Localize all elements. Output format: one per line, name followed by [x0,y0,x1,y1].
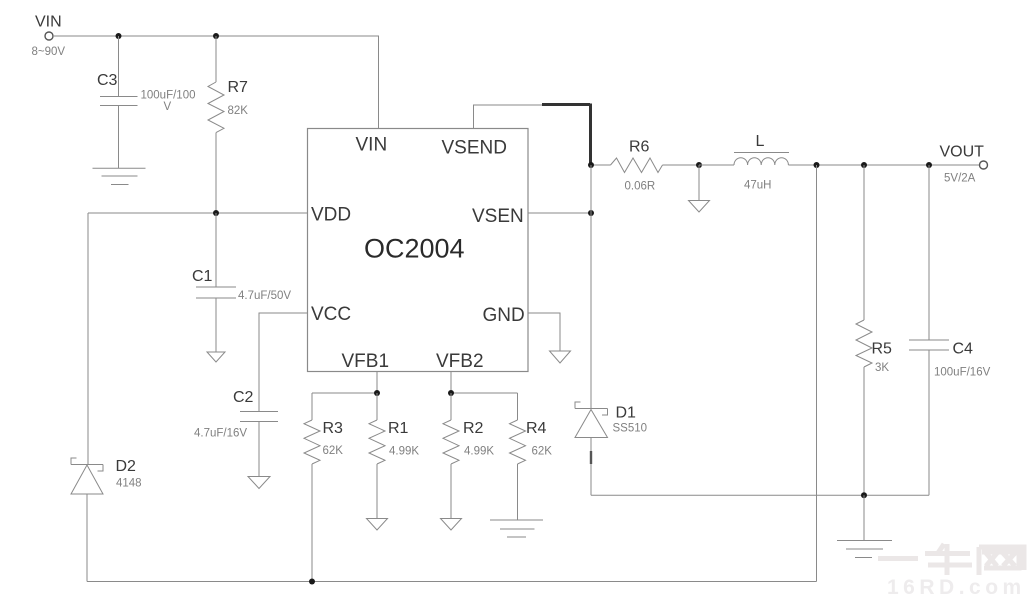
ground earth bottom right [837,541,892,558]
svg-text:R5: R5 [872,341,893,358]
svg-text:C1: C1 [192,268,213,285]
svg-text:82K: 82K [228,105,249,117]
capacitor C1 [192,268,291,302]
svg-text:VSEN: VSEN [472,206,524,227]
resistor R3 [304,393,343,464]
watermark logo [878,544,1024,575]
svg-text:R7: R7 [228,79,249,96]
wire D2 bottom lead [86,494,88,582]
node junction C3/VIN rail [116,33,122,39]
diode D1 [575,402,647,438]
svg-text:R2: R2 [463,420,484,437]
svg-text:62K: 62K [532,446,553,458]
svg-text:4.99K: 4.99K [389,446,419,458]
wire stub to earth ground [863,495,865,540]
ground triangle below C1 [207,352,225,362]
svg-text:R4: R4 [526,420,547,437]
wire D1 bottom lead [590,438,592,496]
IC U1 OC2004 [308,129,529,373]
node junction R7/VIN rail [213,33,219,39]
node junction ground rail [861,492,867,498]
svg-text:100uF/100: 100uF/100 [141,90,196,102]
wire VFB2 pin [451,372,518,394]
resistor R5 [856,165,892,495]
terminal VIN [32,14,66,59]
wire SW vertical to D1 [590,165,592,409]
resistor R4 [510,393,553,464]
svg-text:100uF/16V: 100uF/16V [934,367,991,379]
node junction VDD/C1 [213,210,219,216]
svg-text:4148: 4148 [116,478,142,490]
svg-text:VDD: VDD [311,205,351,226]
ground triangle below R1 [367,519,388,531]
tick mark on D1 lead [590,451,592,464]
wire VSEND thick segment [542,104,591,166]
ground triangle below C2 [248,477,270,489]
capacitor C2 [194,389,278,440]
inductor L [699,133,789,192]
wire right vertical to bottom rail [816,165,818,582]
svg-text:62K: 62K [323,445,344,457]
svg-text:D1: D1 [616,405,637,422]
wire stub to ground after R6 [698,165,700,201]
svg-text:C4: C4 [953,341,974,358]
ground earth below C3 [93,168,146,184]
wire VCC to C2 [259,313,308,477]
svg-text:VCC: VCC [311,304,351,325]
node junction VSEN [588,210,594,216]
wire VSEN pin [528,212,591,214]
wire R1 bottom lead [376,464,378,519]
ground triangle below R2 [441,519,462,531]
svg-text:VSEND: VSEND [442,138,507,159]
svg-text:L: L [756,133,765,150]
wire R4 bottom lead [517,464,519,520]
wire R7 bottom lead to VDD rail [215,133,217,213]
capacitor C4 [909,165,991,495]
svg-text:VOUT: VOUT [940,144,985,161]
svg-text:VFB2: VFB2 [436,351,484,372]
svg-text:VIN: VIN [356,135,388,156]
terminal VOUT [940,144,988,185]
wire C3 lead [118,36,120,168]
wire VSEND pin (thin part) [474,105,543,129]
svg-text:4.7uF/16V: 4.7uF/16V [194,428,247,440]
svg-text:OC2004: OC2004 [364,234,465,264]
ground triangle after R6 [689,201,710,213]
svg-text:8~90V: 8~90V [32,46,66,58]
svg-text:R3: R3 [323,420,344,437]
capacitor C3 [97,72,196,113]
wire GND pin [528,313,560,351]
svg-text:V: V [164,101,172,113]
svg-text:D2: D2 [116,458,137,475]
node junction VFB2 [448,390,454,396]
svg-text:5V/2A: 5V/2A [944,173,976,185]
ground triangle IC GND [550,351,571,363]
wire output rail [788,164,979,166]
wire VDD rail [88,212,308,214]
wire R2 bottom lead [450,464,452,519]
svg-text:47uH: 47uH [744,180,772,192]
resistor R6 [594,139,699,193]
wire top rail VIN [53,36,379,129]
svg-text:GND: GND [483,305,525,326]
ground earth below R4 [490,520,543,537]
node junction SW (VSEND/R6) [588,162,594,168]
wire lower output return rail [591,494,929,496]
svg-text:R6: R6 [629,139,650,156]
diode D2 [71,213,142,494]
wire VFB1 pin [312,372,377,394]
svg-text:4.99K: 4.99K [464,446,494,458]
resistor R7 [208,79,248,133]
wire R7 top lead [215,36,217,82]
node junction C4 top [926,162,932,168]
svg-text:VIN: VIN [35,14,62,31]
svg-text:R1: R1 [388,420,409,437]
svg-text:C3: C3 [97,72,118,89]
svg-text:SS510: SS510 [613,423,648,435]
resistor R2 [443,393,494,464]
svg-text:VFB1: VFB1 [342,351,390,372]
resistor R1 [369,393,419,464]
svg-text:4.7uF/50V: 4.7uF/50V [238,290,291,302]
svg-text:16RD.com: 16RD.com [887,576,1026,598]
wire bottom rail [87,581,817,583]
wire C1 leads [215,213,217,352]
svg-text:3K: 3K [875,362,889,374]
node junction VFB1 [374,390,380,396]
svg-text:0.06R: 0.06R [625,181,656,193]
wire R3 bottom to bottom rail [311,464,313,582]
node junction L out [814,162,820,168]
node junction R5 top [861,162,867,168]
node junction R3/bottom rail [309,579,315,585]
node junction R6/L [696,162,702,168]
svg-text:C2: C2 [233,389,254,406]
